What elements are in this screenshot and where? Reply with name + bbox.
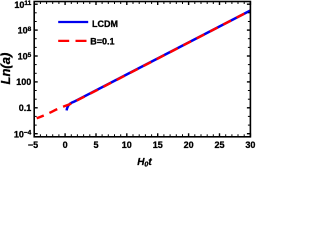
svg-text:15: 15 (153, 140, 163, 150)
svg-text:B=0.1: B=0.1 (90, 36, 114, 46)
svg-text:5: 5 (93, 140, 98, 150)
axes frame (34, 2, 250, 137)
svg-text:0.1: 0.1 (19, 103, 32, 113)
x minor ticks bottom (40, 134, 244, 137)
svg-text:Ln(a): Ln(a) (0, 53, 13, 85)
y minor ticks left (34, 13, 37, 125)
svg-text:20: 20 (184, 140, 194, 150)
svg-text:−5: −5 (28, 140, 38, 150)
y major ticks left (34, 4, 38, 134)
B=0.1 curve (red dashed) (37, 11, 251, 119)
svg-text:30: 30 (245, 140, 255, 150)
legend B=0.1 sample line (58, 40, 88, 42)
svg-text:25: 25 (214, 140, 224, 150)
svg-text:100: 100 (16, 77, 31, 87)
x major ticks top (34, 2, 250, 6)
y major ticks right (247, 4, 251, 134)
legend LCDM sample line (58, 21, 88, 23)
x minor ticks top (40, 2, 244, 5)
svg-text:0: 0 (63, 140, 68, 150)
ΛCDM curve (blue solid) (67, 11, 251, 111)
y minor ticks right (248, 13, 251, 125)
svg-text:10: 10 (122, 140, 132, 150)
svg-text:LCDM: LCDM (92, 19, 118, 29)
x major ticks bottom (34, 133, 250, 137)
